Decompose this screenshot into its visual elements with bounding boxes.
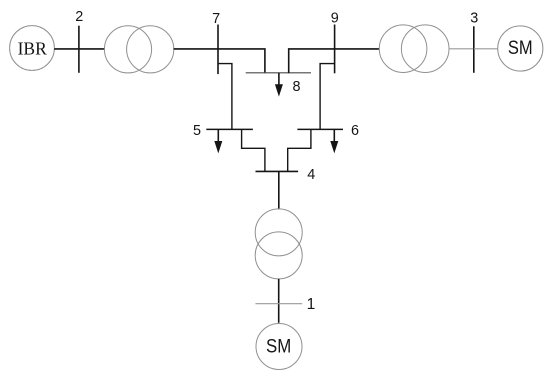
bus 3 — [473, 26, 475, 73]
load arrow at bus 8 — [275, 73, 283, 97]
wire bus 3 to generator SM — [474, 48, 498, 50]
svg-text:SM: SM — [508, 38, 533, 59]
svg-text:9: 9 — [331, 10, 339, 26]
svg-text:3: 3 — [470, 11, 478, 27]
svg-text:SM: SM — [266, 337, 291, 358]
svg-text:4: 4 — [307, 167, 315, 183]
generator IBR — [10, 26, 55, 71]
generator SM (right) — [498, 26, 543, 71]
svg-text:IBR: IBR — [18, 39, 48, 59]
bus 2 — [78, 26, 80, 73]
bus 6 — [297, 128, 343, 130]
svg-text:6: 6 — [351, 123, 359, 139]
load arrow at bus 5 — [214, 129, 222, 153]
wire T3 to generator SM through bus 1 — [278, 279, 280, 323]
transformer T2 — [379, 25, 449, 73]
transformer T1 — [104, 26, 173, 73]
bus 4 — [256, 170, 299, 172]
bus 1 — [255, 303, 302, 305]
wire bus 6 to bus 4 — [288, 129, 311, 171]
wire bus 9 to bus 8 — [289, 49, 335, 73]
wire IBR to transformer T1 through bus 2 — [54, 48, 105, 50]
svg-text:7: 7 — [212, 11, 220, 27]
wire bus 4 to transformer T3 — [278, 171, 280, 209]
bus 5 — [206, 128, 253, 130]
wire bus 7 to bus 8 — [218, 49, 265, 73]
wire bus 7 to bus 5 — [218, 64, 232, 130]
bus 8 — [246, 72, 311, 74]
transformer T3 — [255, 209, 302, 279]
svg-text:1: 1 — [307, 296, 316, 313]
bus 9 — [334, 25, 336, 74]
wire bus 5 to bus 4 — [242, 129, 265, 171]
wire bus 9 to transformer T2 — [335, 48, 380, 50]
bus 7 — [217, 25, 219, 75]
wire T1 to bus 7 — [174, 48, 218, 50]
wire bus 9 to bus 6 — [320, 64, 335, 130]
load arrow at bus 6 — [330, 129, 338, 153]
generator SM (bottom) — [256, 324, 302, 370]
wire T2 to bus 3 — [449, 48, 474, 50]
svg-text:5: 5 — [193, 123, 201, 139]
svg-text:2: 2 — [75, 9, 83, 25]
svg-text:8: 8 — [292, 79, 300, 95]
